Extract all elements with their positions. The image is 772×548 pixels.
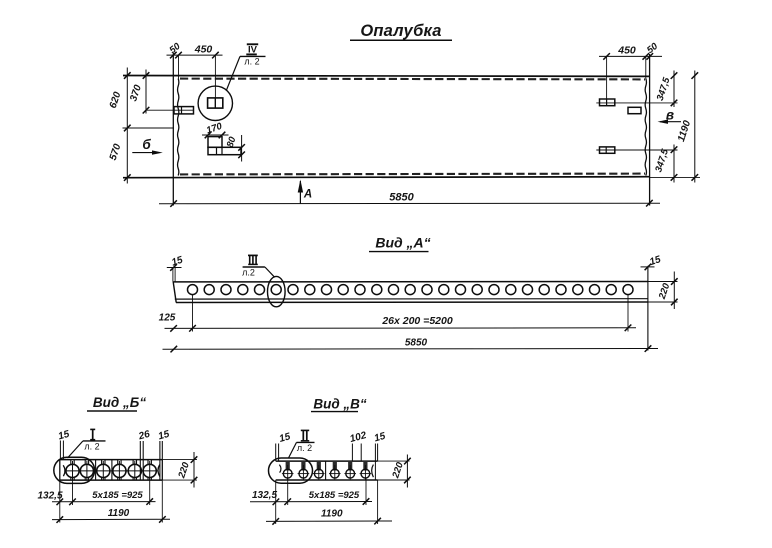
detail mark I / л.2 with leader (vid Б): [68, 429, 106, 458]
holes with crosses (vid Б): [64, 460, 158, 481]
end half-holes (vid Б): [63, 465, 160, 477]
svg-text:л.2: л.2: [242, 268, 255, 278]
dimension 80: [225, 135, 245, 162]
svg-text:132,5: 132,5: [37, 491, 62, 502]
svg-text:л. 2: л. 2: [297, 443, 312, 453]
right dimension 1190: [676, 71, 698, 183]
svg-text:б: б: [142, 137, 151, 152]
bottom dimension 1190 (vid В): [266, 480, 392, 525]
detail circle IV: [198, 55, 232, 120]
detail mark IV / л.2 with leader: [226, 44, 265, 90]
svg-text:Вид „А“: Вид „А“: [375, 235, 430, 251]
bottom dimension 5850 (vid A): [163, 338, 659, 353]
svg-text:5х185 =925: 5х185 =925: [92, 490, 143, 501]
bottom dimension 1190 (vid Б): [52, 480, 170, 523]
left dimension chain 620 / 570: [108, 68, 174, 184]
svg-text:л. 2: л. 2: [244, 57, 259, 67]
strip side view outline: [173, 266, 677, 351]
plank joints (vid Б): [96, 460, 112, 481]
svg-text:Вид „Б“: Вид „Б“: [93, 395, 146, 410]
end half-holes (vid В): [279, 465, 373, 478]
stadium callout (vid Б): [54, 457, 95, 483]
title: Вид А: [369, 235, 431, 252]
svg-text:л. 2: л. 2: [84, 442, 99, 452]
27 holes row: [188, 285, 634, 295]
inner dimension 370: [128, 70, 149, 114]
svg-text:5х185 =925: 5х185 =925: [309, 490, 360, 501]
small detail 170x80: [208, 137, 241, 155]
right bracket detail: [628, 107, 641, 113]
left 15 dimension (vid A): [167, 255, 185, 282]
svg-text:А: А: [303, 189, 312, 201]
strip Б outline: [60, 460, 163, 481]
title: Опалубка: [350, 22, 452, 40]
svg-text:1190: 1190: [108, 508, 130, 519]
detail mark III / л.2 with leader: [242, 255, 275, 277]
svg-text:132,5: 132,5: [252, 490, 277, 501]
top-right dimension line 450 / 50: [599, 41, 662, 99]
stadium callout (vid В): [269, 458, 313, 483]
bottom dimension 132,5 / 5x185=925 (vid Б): [37, 478, 155, 506]
bottom dimension 5850 (plan): [159, 192, 660, 207]
callout ellipse on hole 6: [268, 276, 286, 306]
svg-text:1190: 1190: [321, 509, 343, 520]
right 220 dimension (vid В): [390, 455, 411, 488]
right dimension 347.5 upper: [655, 71, 678, 108]
svg-text:5850: 5850: [405, 338, 428, 349]
bottom dimension 132,5 / 5x185=925 (vid В): [250, 478, 372, 505]
plank joint (vid В): [325, 461, 327, 480]
right clamp bolt upper: [596, 99, 677, 106]
svg-text:Опалубка: Опалубка: [360, 22, 441, 40]
svg-text:125: 125: [159, 313, 176, 324]
right 15 dimension (vid A): [641, 254, 663, 270]
right 220 dimension (vid A): [657, 272, 678, 310]
view arrow А: [298, 180, 312, 204]
right 220 dimension (vid Б): [162, 452, 197, 488]
dimension 125 and 26x200=5200: [159, 295, 636, 332]
svg-text:Вид „В“: Вид „В“: [313, 397, 367, 412]
view arrow в: [658, 108, 682, 124]
right clamp bolt lower: [596, 147, 677, 153]
detail mark II / л.2 with leader (vid В): [289, 430, 315, 458]
holes with pins (vid В): [282, 462, 371, 480]
dimension 170: [202, 121, 229, 139]
top labels 15 / 26 / 15 (vid Б): [57, 429, 71, 460]
top-left dimension line 50 / 450: [167, 41, 223, 79]
svg-text:5850: 5850: [389, 192, 414, 204]
top labels 15 / 102 / 15 (vid В): [276, 431, 292, 461]
right dimension 347.5 lower: [650, 145, 700, 183]
svg-text:26х 200 =5200: 26х 200 =5200: [381, 315, 453, 327]
svg-text:450: 450: [194, 44, 213, 56]
left clamp bolt: [146, 107, 194, 114]
title: Вид Б: [87, 395, 146, 411]
title: Вид В: [311, 397, 367, 412]
formwork panel outline: [123, 53, 650, 206]
section arrow б: [132, 137, 163, 155]
svg-text:450: 450: [617, 45, 636, 57]
strip В outline: [276, 461, 410, 480]
